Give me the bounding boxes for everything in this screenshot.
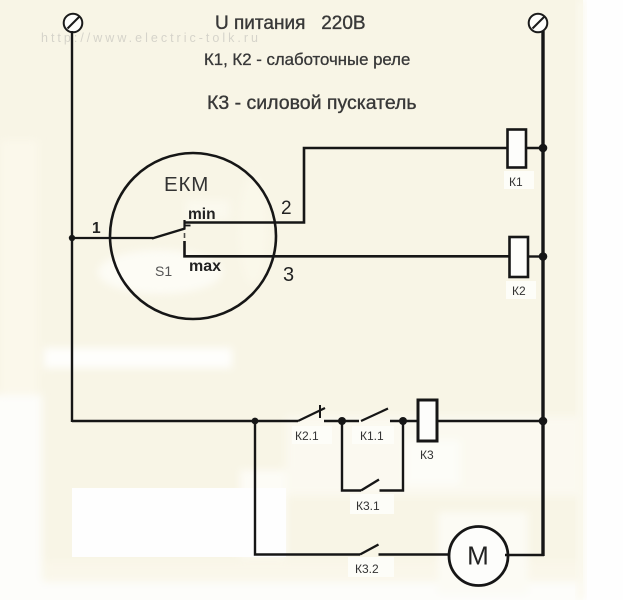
svg-text:К3 - силовой пускатель: К3 - силовой пускатель (207, 92, 417, 114)
terminal right (supply) (529, 14, 548, 33)
svg-text:К3.2: К3.2 (355, 562, 379, 576)
relay coil K3 (418, 400, 437, 441)
contact K1.1 (NO) arm (361, 409, 388, 422)
junction control row / motor branch (252, 418, 259, 425)
junction K3.1 branch left (338, 417, 346, 425)
junction K2/right bus (539, 252, 548, 261)
wire min contact to node 2 (184, 148, 508, 223)
switch S1 arm (152, 229, 185, 239)
wire left bus to control row (72, 420, 298, 422)
wire motor branch down (255, 421, 360, 555)
contact K3.2 (NO) arm (360, 545, 379, 555)
svg-text:М: М (467, 541, 489, 571)
EKM sensor body (110, 153, 276, 319)
wire motor to right bus (505, 554, 544, 556)
svg-text:К2: К2 (512, 284, 526, 298)
svg-text:2: 2 (281, 198, 292, 219)
terminal left (supply) (64, 14, 83, 33)
wire node 1 to switch S1 (72, 237, 153, 239)
svg-text:К1.1: К1.1 (360, 429, 384, 443)
relay coil K1 (508, 130, 527, 168)
wire K3.1 branch right leg (380, 421, 404, 491)
motor M body (449, 527, 508, 586)
svg-text:К3.1: К3.1 (356, 499, 380, 513)
contact K2.1 (NC) arm (298, 408, 325, 421)
node 1 junction (69, 235, 75, 241)
svg-text:U питания 220В: U питания 220В (215, 13, 366, 34)
junction K3/right bus (539, 417, 548, 426)
switch S1 contact stub (184, 225, 191, 227)
wire K1.1 to K3 coil (390, 420, 418, 422)
junction K1/right bus (539, 144, 548, 153)
contact K3.1 (NO) arm (361, 480, 379, 491)
switch S1 mechanical link (dashed) (184, 233, 186, 238)
wire K2.1 to K1.1 (324, 420, 359, 422)
svg-text:3: 3 (283, 264, 294, 286)
switch S1 min contact tick (183, 220, 185, 230)
wire max contact to node 3 (185, 241, 511, 256)
relay coil K2 (510, 237, 529, 277)
wire K3 coil to right bus (437, 420, 543, 422)
svg-text:К2.1: К2.1 (295, 429, 319, 443)
svg-text:ЕКМ: ЕКМ (164, 173, 209, 196)
wire K3.1 branch left leg (342, 421, 361, 491)
contact K2.1 NC tick (319, 405, 321, 418)
svg-text:К1, К2 - слаботочные реле: К1, К2 - слаботочные реле (204, 50, 410, 69)
svg-text:К1: К1 (509, 175, 523, 189)
junction K3.1 branch right (399, 417, 407, 425)
svg-text:1: 1 (92, 220, 101, 237)
wire K3.2 to motor (379, 553, 450, 555)
wire right bus (541, 31, 544, 556)
wire K2 to right bus (528, 255, 543, 257)
svg-text:min: min (188, 206, 216, 223)
svg-text:max: max (189, 258, 221, 275)
svg-text:S1: S1 (155, 263, 172, 279)
wire left bus (71, 31, 73, 422)
svg-text:К3: К3 (420, 448, 434, 462)
wire K1 to right bus (526, 147, 543, 149)
